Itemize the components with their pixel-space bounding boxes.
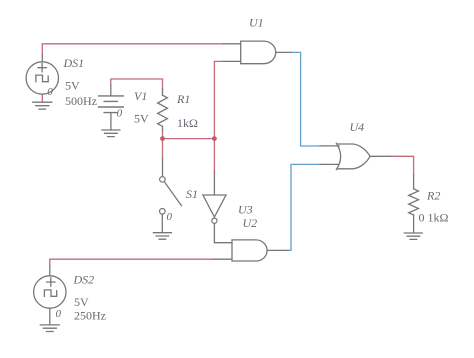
inverter U3 triangle bbox=[203, 195, 226, 217]
resistor R2 bottom stem bbox=[413, 215, 415, 233]
voltage source DS2 circle bbox=[34, 276, 66, 308]
wire junction to junction horizontal (red) bbox=[163, 138, 215, 140]
svg-text:DS1: DS1 bbox=[63, 56, 85, 70]
inverter U3 output wire to U2 bbox=[214, 223, 232, 242]
svg-text:0: 0 bbox=[47, 86, 53, 98]
wire U4 output to R2 (red) bbox=[390, 156, 414, 175]
battery V1 top stem bbox=[110, 85, 112, 96]
voltage source DS1 circle bbox=[26, 62, 58, 94]
svg-text:5V: 5V bbox=[134, 112, 149, 126]
ground under DS1 bbox=[33, 102, 52, 109]
svg-text:R1: R1 bbox=[176, 92, 190, 106]
svg-text:250Hz: 250Hz bbox=[74, 309, 106, 323]
wire DS1 top to U1 input A (red) bbox=[42, 44, 223, 55]
svg-text:DS2: DS2 bbox=[73, 273, 95, 287]
pin stub U1 input B bbox=[224, 60, 241, 62]
battery V1 bottom stem bbox=[110, 113, 112, 130]
switch S1 blade bbox=[164, 182, 181, 206]
svg-text:0: 0 bbox=[56, 308, 62, 320]
switch S1 top stub bbox=[162, 158, 164, 176]
ground under DS2 bbox=[40, 325, 59, 332]
DS2 top stem bbox=[49, 266, 51, 276]
svg-text:U2: U2 bbox=[243, 216, 258, 230]
DS1 top pin stub bbox=[41, 55, 43, 62]
svg-text:U4: U4 bbox=[350, 120, 365, 134]
switch S1 top terminal circle bbox=[160, 177, 166, 183]
AND gate U2 body bbox=[232, 240, 267, 261]
resistor R2 top stub bbox=[413, 175, 415, 189]
pin stub U2 input B bbox=[213, 258, 232, 260]
svg-text:U1: U1 bbox=[249, 16, 264, 30]
svg-text:5V: 5V bbox=[74, 295, 89, 309]
svg-text:V1: V1 bbox=[134, 89, 147, 103]
wire DS1 bottom to ground (red) bbox=[41, 94, 43, 102]
pin stub U1 output bbox=[276, 51, 292, 53]
resistor R1 zigzag bbox=[158, 95, 168, 126]
switch S1 bottom stem bbox=[161, 214, 163, 233]
ground under V1 bbox=[102, 130, 120, 137]
AND gate U1 body bbox=[241, 41, 276, 64]
pin stub U4 input B bbox=[320, 163, 339, 165]
wire U1 output to U4 input A (blue) bbox=[292, 52, 321, 146]
wire U2 output to U4 input B (blue) bbox=[288, 164, 320, 250]
svg-text:5V: 5V bbox=[65, 79, 80, 93]
pin stub U2 output bbox=[267, 249, 288, 251]
switch S1 bottom terminal circle bbox=[160, 209, 166, 215]
pin stub U4 output bbox=[370, 155, 390, 157]
OR gate U4 body bbox=[336, 143, 340, 169]
pin stub U1 input A bbox=[224, 43, 241, 45]
wire junction up to U1 input B (red) bbox=[214, 61, 223, 138]
wire junction down to inverter U3 (red) bbox=[213, 139, 215, 172]
wire R1 bottom to node junction (red) bbox=[162, 131, 164, 139]
svg-text:0 1kΩ: 0 1kΩ bbox=[419, 210, 449, 224]
svg-text:0: 0 bbox=[117, 107, 123, 119]
resistor R2 zigzag bbox=[409, 189, 419, 215]
battery V1 plates bbox=[99, 96, 124, 113]
resistor R1 bottom stub bbox=[162, 126, 164, 130]
inverter U3 bubble bbox=[212, 218, 217, 223]
resistor R1 top stub bbox=[162, 89, 164, 95]
svg-text:500Hz: 500Hz bbox=[65, 94, 97, 108]
pin stub U4 input A bbox=[320, 145, 339, 147]
DS2 bottom stem bbox=[49, 308, 51, 325]
ground under R2 bbox=[404, 233, 422, 239]
ground under S1 bbox=[153, 233, 171, 240]
svg-text:1kΩ: 1kΩ bbox=[177, 116, 198, 130]
inverter U3 input stub bbox=[213, 172, 215, 195]
wire junction down to switch S1 (red) bbox=[162, 139, 164, 159]
junction node dot 1 bbox=[160, 136, 165, 141]
DS2 plus sign bbox=[47, 278, 55, 286]
junction node dot 2 bbox=[212, 136, 217, 141]
DS1 square wave glyph bbox=[36, 75, 48, 82]
svg-text:0: 0 bbox=[167, 211, 173, 223]
DS1 plus sign bbox=[38, 64, 46, 72]
svg-text:R2: R2 bbox=[426, 189, 440, 203]
svg-text:U3: U3 bbox=[238, 203, 253, 217]
wire DS2 to U2 input B (red) bbox=[50, 259, 213, 266]
wire battery V1 top to R1 top (red) bbox=[111, 79, 163, 89]
svg-text:S1: S1 bbox=[186, 187, 198, 201]
DS2 square wave glyph bbox=[44, 290, 56, 296]
